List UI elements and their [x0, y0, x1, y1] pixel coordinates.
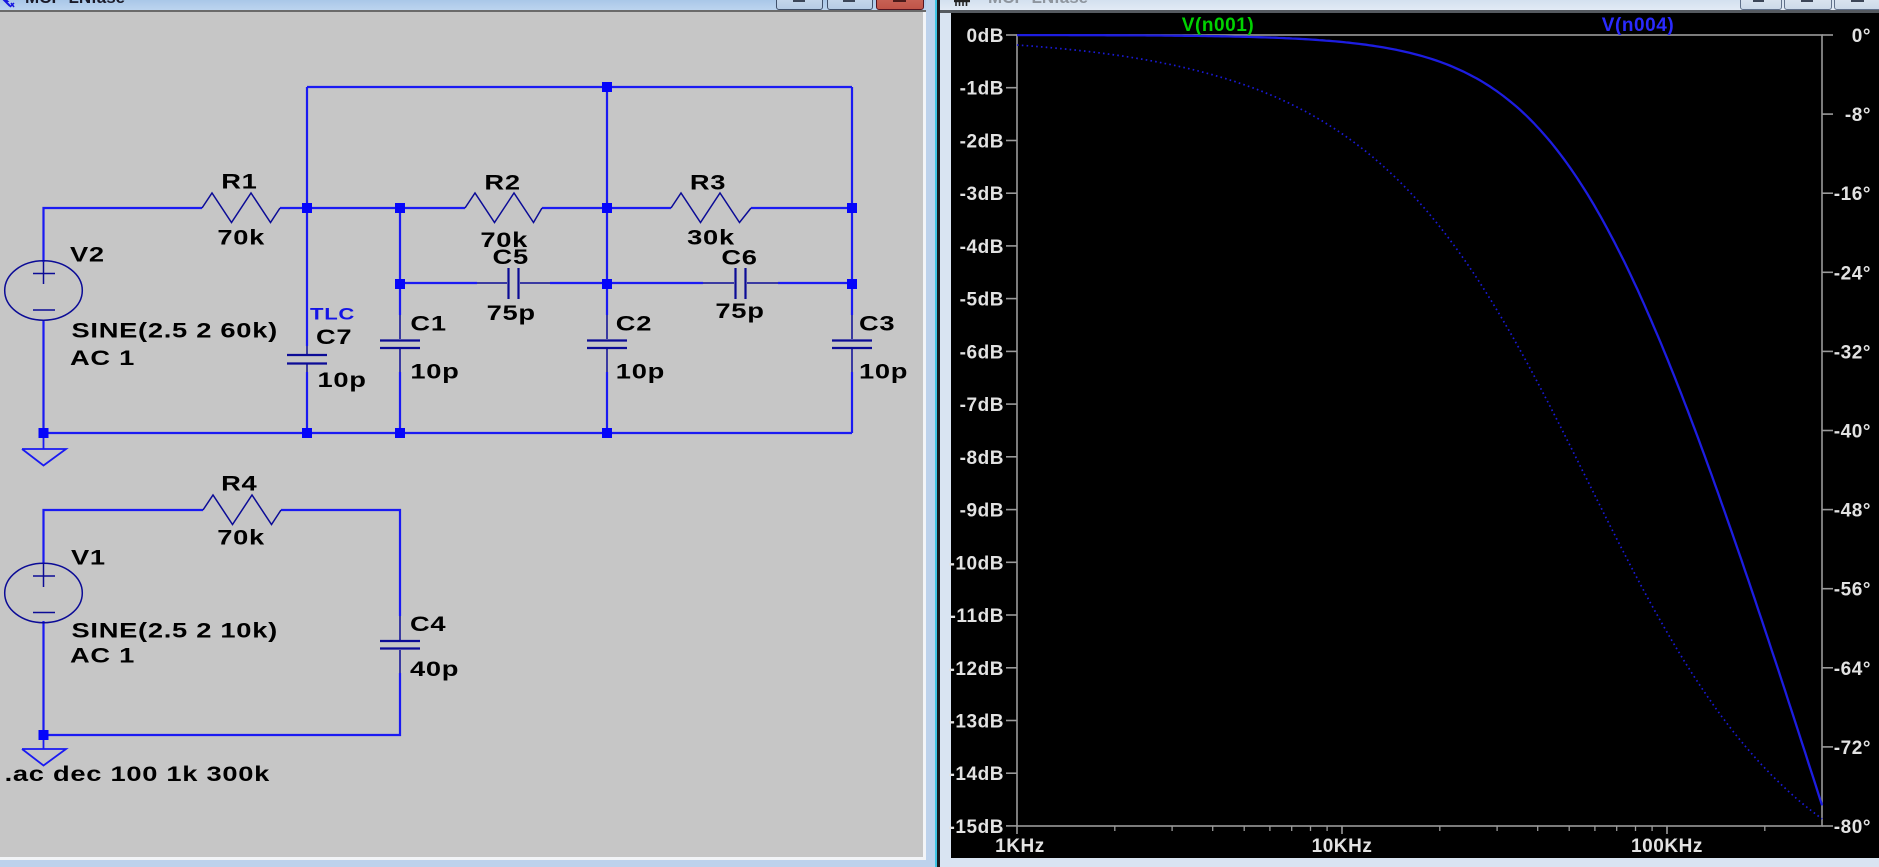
wire node4 column lower — [851, 372, 853, 433]
junction node3 C5 row — [602, 279, 612, 289]
wire C5 row left — [400, 282, 477, 284]
wire node1 column upper — [306, 87, 308, 346]
wire R1 to R2 — [280, 207, 465, 209]
bottom frequency axis ticks — [1016, 826, 1018, 834]
resistor R3 — [671, 193, 751, 223]
wire R3 to right column — [751, 207, 852, 209]
resistor R1 — [202, 193, 280, 223]
junction ground bus node1 — [302, 428, 312, 438]
wire V1 to R4 — [44, 510, 204, 564]
svg-text:-48°: -48° — [1834, 501, 1871, 522]
svg-text:-24°: -24° — [1834, 263, 1871, 284]
svg-text:-11dB: -11dB — [950, 606, 1005, 627]
svg-text:-5dB: -5dB — [960, 290, 1004, 311]
svg-text:V(n004): V(n004) — [1602, 15, 1674, 36]
svg-text:-9dB: -9dB — [960, 501, 1004, 522]
wire ground bus upper — [44, 432, 853, 434]
junction ground bus node2 — [395, 428, 405, 438]
cyan separator line — [935, 0, 938, 867]
voltage source V1 circle — [5, 563, 83, 622]
svg-text:10KHz: 10KHz — [1312, 836, 1373, 857]
junction node4 C6 row — [847, 279, 857, 289]
capacitor C2 leads — [606, 315, 608, 372]
svg-text:V(n001): V(n001) — [1182, 15, 1254, 36]
svg-text:-72°: -72° — [1834, 738, 1871, 759]
junction node4 main row — [847, 203, 857, 213]
right phase axis ticks and labels — [1822, 34, 1833, 36]
svg-text:-3dB: -3dB — [960, 184, 1004, 205]
wire V1 bottom — [42, 621, 44, 735]
svg-text:-6dB: -6dB — [960, 342, 1004, 363]
svg-text:0dB: 0dB — [966, 26, 1004, 47]
wire R4 to C4 — [281, 510, 400, 616]
svg-text:-64°: -64° — [1834, 659, 1871, 680]
window icon schematic — [1, 0, 17, 10]
svg-text:-14dB: -14dB — [948, 764, 1004, 785]
junction node3 top bus — [602, 82, 612, 92]
svg-text:-56°: -56° — [1834, 580, 1871, 601]
wire C6 row left — [607, 282, 703, 284]
resistor R4 — [203, 495, 281, 525]
svg-text:-8°: -8° — [1845, 105, 1871, 126]
capacitor C3 plates — [832, 341, 872, 349]
junction lower ground — [39, 730, 49, 740]
plot axis box — [1017, 35, 1822, 826]
svg-text:-80°: -80° — [1834, 817, 1871, 838]
wire node1 column lower — [306, 372, 308, 433]
resistor R2 — [465, 193, 542, 223]
ground symbol lower — [22, 735, 66, 766]
svg-text:-7dB: -7dB — [960, 395, 1004, 416]
svg-text:-12dB: -12dB — [948, 659, 1004, 680]
wire node3 column upper — [606, 87, 608, 315]
wire node3 column lower — [606, 372, 608, 433]
capacitor C6 leads — [703, 282, 778, 284]
junction node1 main row — [302, 203, 312, 213]
svg-text:0°: 0° — [1852, 26, 1871, 47]
left dB axis ticks and labels — [1006, 34, 1017, 36]
wire C6 row right — [778, 282, 852, 284]
svg-text:-10dB: -10dB — [948, 553, 1004, 574]
wire node2 column upper — [399, 208, 401, 315]
wire C5 row right — [550, 282, 607, 284]
junction node2 main row — [395, 203, 405, 213]
svg-text:-1dB: -1dB — [960, 79, 1004, 100]
junction ground bus node3 — [602, 428, 612, 438]
voltage source V2 circle — [5, 261, 83, 320]
junction node3 main row — [602, 203, 612, 213]
capacitor C7 leads — [306, 346, 308, 372]
svg-text:-16°: -16° — [1834, 184, 1871, 205]
capacitor C3 leads — [851, 315, 853, 372]
svg-text:-2dB: -2dB — [960, 132, 1004, 153]
trace V(n004) magnitude solid — [1017, 35, 1822, 805]
wire node2 column lower — [399, 372, 401, 433]
svg-text:1KHz: 1KHz — [995, 836, 1045, 857]
svg-text:-4dB: -4dB — [960, 237, 1004, 258]
junction ground bus left — [39, 428, 49, 438]
wire V2 to R1 — [44, 208, 203, 262]
svg-text:-32°: -32° — [1834, 342, 1871, 363]
capacitor C7 plates — [287, 355, 327, 364]
trace V(n004) phase dotted — [1017, 45, 1822, 819]
wire node4 column upper — [851, 87, 853, 315]
svg-text:100KHz: 100KHz — [1631, 836, 1703, 857]
capacitor C4 leads — [399, 616, 401, 673]
junction node2 C5 row — [395, 279, 405, 289]
svg-text:-8dB: -8dB — [960, 448, 1004, 469]
capacitor C6 plates — [736, 268, 746, 299]
wire V2 bottom — [42, 320, 44, 433]
wire top bus — [307, 86, 852, 88]
capacitor C1 leads — [399, 315, 401, 372]
window icon waveform — [953, 0, 971, 10]
wire C4 to ground bus lower — [44, 673, 401, 735]
capacitor C2 plates — [587, 341, 627, 349]
svg-text:-40°: -40° — [1834, 422, 1871, 443]
capacitor C5 plates — [509, 268, 519, 299]
svg-text:-15dB: -15dB — [948, 817, 1004, 838]
ground symbol upper — [22, 433, 66, 466]
capacitor C5 leads — [477, 282, 550, 284]
capacitor C4 plates — [380, 641, 420, 649]
wire R2 to R3 — [542, 207, 671, 209]
capacitor C1 plates — [380, 341, 420, 349]
svg-text:-13dB: -13dB — [948, 712, 1004, 733]
